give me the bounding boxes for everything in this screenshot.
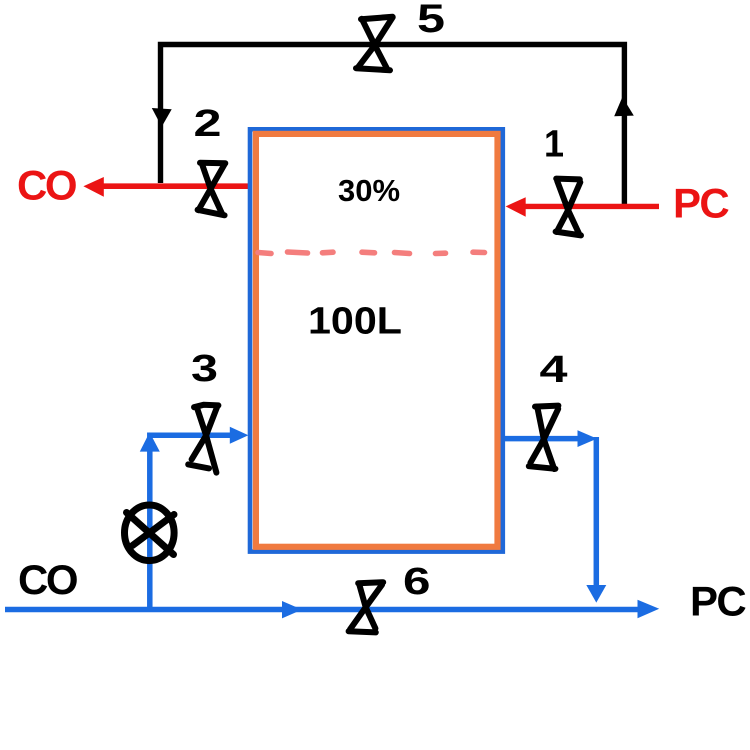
- svg-text:PC: PC: [690, 578, 746, 625]
- svg-text:PC: PC: [673, 180, 729, 227]
- svg-text:1: 1: [544, 124, 564, 166]
- svg-text:5: 5: [417, 0, 445, 41]
- svg-text:6: 6: [403, 561, 431, 603]
- svg-text:30%: 30%: [338, 173, 400, 208]
- svg-text:CO: CO: [18, 556, 77, 603]
- svg-text:3: 3: [191, 348, 218, 390]
- svg-text:4: 4: [540, 349, 568, 391]
- svg-text:CO: CO: [17, 162, 76, 209]
- svg-text:100L: 100L: [308, 301, 402, 343]
- svg-text:2: 2: [194, 103, 222, 145]
